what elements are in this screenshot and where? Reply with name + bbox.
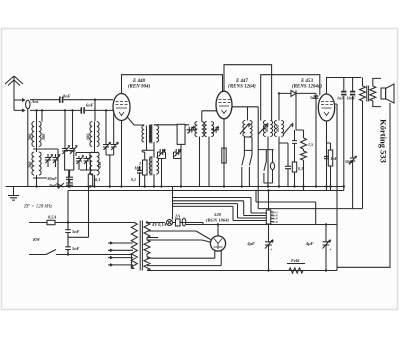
svg-text:Ant: Ant — [31, 99, 39, 104]
svg-text:8nF: 8nF — [63, 94, 71, 99]
output transformer primary zigzag — [360, 78, 366, 209]
diode load column — [292, 93, 304, 186]
interconnect rows — [33, 149, 98, 187]
mains line bottom with switch — [29, 250, 111, 255]
box2 plate loop E453 — [261, 75, 320, 121]
coil 600c with arrow — [240, 107, 252, 137]
grid coil B — [204, 122, 213, 187]
wire IF secondary to shield box — [154, 124, 177, 126]
V2 anode wire — [232, 107, 258, 146]
V3 side wire to x337 — [334, 104, 337, 225]
output transformer core — [367, 86, 369, 102]
cap on x316 — [314, 96, 319, 98]
svg-text:5nF: 5nF — [72, 229, 80, 234]
fuse — [47, 220, 55, 224]
wire drops from W2 to coil row — [37, 110, 114, 145]
svg-text:1nF: 1nF — [337, 96, 344, 101]
bus 2 — [68, 190, 344, 192]
cap midpoint to bus — [68, 187, 89, 238]
padder trimmer pair — [158, 149, 166, 157]
svg-text:5nF: 5nF — [72, 246, 80, 251]
Feld resistor — [287, 264, 305, 274]
V3 cathode down — [326, 121, 328, 191]
svg-text:50pF: 50pF — [345, 159, 354, 164]
V3 top line to output — [327, 78, 362, 95]
svg-text:0,3: 0,3 — [298, 166, 303, 171]
svg-text:0,1: 0,1 — [95, 177, 101, 182]
series caps — [65, 223, 70, 247]
IF transformer secondary — [149, 125, 158, 151]
secondary windings — [144, 223, 150, 271]
trimmer pair T4 lower — [76, 156, 84, 170]
600 coil labels — [264, 124, 280, 131]
wire W2 — [30, 109, 113, 111]
caps 30nF 8nF — [66, 170, 73, 183]
svg-text:E 447: E 447 — [235, 79, 249, 84]
svg-text:0,5A: 0,5A — [48, 215, 56, 220]
V2 cathode down — [223, 119, 225, 187]
svg-text:E 453: E 453 — [300, 79, 314, 84]
speaker tap box — [266, 210, 271, 224]
bus2 drop to mains — [67, 191, 69, 223]
tube V1 bottom wires — [122, 117, 145, 187]
svg-text:600: 600 — [264, 124, 269, 131]
coil 600a — [259, 121, 273, 187]
mains line top — [29, 222, 132, 224]
tube labels — [128, 79, 323, 90]
wire drop x95 — [94, 100, 96, 121]
trimmer pair T3 lower — [45, 154, 53, 167]
coil L2 300 — [90, 122, 99, 147]
svg-text:2A: 2A — [174, 214, 180, 219]
ground — [8, 187, 19, 201]
IF node wires — [142, 149, 154, 151]
tube V2 E447 — [216, 91, 232, 119]
svg-text:4μF: 4μF — [246, 241, 255, 246]
trimmer pair T2 — [103, 142, 111, 155]
svg-text:8nF: 8nF — [49, 183, 57, 188]
wire to V2 grid — [202, 111, 217, 122]
svg-text:0,1: 0,1 — [131, 177, 136, 182]
switch-jack fork — [264, 150, 273, 187]
svg-text:1,5: 1,5 — [308, 142, 313, 147]
heater wires to rectifier — [147, 251, 221, 266]
connector ground drop — [27, 109, 29, 187]
wire top W1 — [30, 99, 113, 101]
svg-text:10nF: 10nF — [347, 96, 356, 101]
right vertical to bottom — [336, 225, 338, 271]
svg-text:030: 030 — [97, 161, 102, 168]
svg-text:300: 300 — [86, 133, 91, 141]
svg-text:300: 300 — [41, 133, 46, 141]
antenna input arrows — [14, 99, 25, 112]
right output column wires — [344, 78, 353, 209]
primary taps — [108, 242, 133, 266]
svg-text:520: 520 — [214, 212, 222, 217]
box1 plate loop E448 — [122, 75, 223, 94]
tube V3 E453 — [318, 94, 334, 121]
capacitor C1 8nF — [60, 97, 63, 103]
svg-text:4V 0,1A: 4V 0,1A — [151, 222, 167, 227]
svg-text:E 448: E 448 — [132, 79, 146, 84]
svg-text:300: 300 — [28, 133, 33, 141]
svg-text:(REN 904): (REN 904) — [128, 85, 151, 90]
resistor right box — [328, 150, 332, 166]
svg-text:ZF = 128 kHz: ZF = 128 kHz — [24, 205, 52, 210]
svg-text:4μF: 4μF — [305, 241, 314, 246]
svg-text:Feld: Feld — [291, 258, 300, 263]
electrolytic cap 4uF right — [323, 225, 331, 271]
coil L4 — [90, 147, 99, 187]
heater wires — [173, 198, 252, 207]
left block labels — [28, 94, 103, 189]
output transformer secondary — [370, 86, 376, 101]
svg-text:600: 600 — [275, 124, 280, 131]
speaker return wire — [337, 103, 390, 267]
IF2 coil — [149, 150, 158, 186]
svg-text:MΩ: MΩ — [133, 166, 141, 171]
speaker — [381, 88, 386, 99]
coil L3 — [32, 147, 41, 187]
resistor box mid — [292, 162, 296, 172]
rectifier RGN — [210, 236, 225, 251]
resistor R 0,1M — [88, 174, 92, 186]
svg-text:(RENS 1204d): (RENS 1204d) — [292, 85, 322, 90]
pickup jack — [182, 218, 186, 226]
cap on V3 cathode — [324, 157, 329, 159]
heater/HV wires — [147, 223, 337, 271]
cap column x288 — [279, 143, 291, 187]
resistor on V2 line — [222, 148, 226, 163]
bottom labels — [32, 214, 332, 264]
svg-text:300: 300 — [28, 161, 33, 169]
capacitor C2 6nF — [81, 107, 84, 113]
switch fork left pair — [242, 137, 252, 187]
transformer core — [140, 221, 142, 271]
antenna — [5, 76, 23, 111]
right loop wire — [256, 191, 316, 225]
trimmer 50pF — [349, 156, 357, 166]
V2 plate loop to 600 coil — [224, 65, 272, 121]
grid coil A — [194, 122, 204, 187]
svg-text:KW: KW — [32, 237, 41, 242]
transformer primary — [111, 223, 137, 269]
svg-text:30nF: 30nF — [46, 176, 57, 181]
electrolytic cap 4uF left — [265, 225, 273, 271]
resistor 2M box — [143, 160, 148, 175]
wire x258 — [258, 146, 362, 209]
wave switch contacts — [52, 183, 64, 189]
cap 0,1 — [137, 166, 142, 187]
line A — [186, 224, 337, 226]
IF transformer primary — [142, 126, 151, 151]
svg-text:5nF: 5nF — [310, 95, 317, 100]
cap 1nF — [341, 92, 346, 95]
svg-text:Körting 533: Körting 533 — [379, 119, 389, 163]
dial lamp — [167, 220, 173, 226]
rectifier output — [217, 225, 219, 236]
svg-text:6nF: 6nF — [86, 103, 94, 108]
antenna connector — [26, 100, 30, 109]
zigzag resistor mid — [301, 130, 307, 191]
trimmer pair T1 — [62, 145, 70, 154]
fuse box 2 — [176, 219, 181, 226]
tap feed staircase — [233, 198, 266, 221]
tube V1 E448 — [113, 94, 130, 121]
svg-text:2x40: 2x40 — [273, 221, 279, 224]
ground bus — [6, 186, 344, 188]
label box 520 connects — [147, 237, 158, 239]
coil L1 300 — [32, 122, 41, 147]
grid trimmer 2 — [211, 126, 219, 134]
svg-text:1nF: 1nF — [331, 156, 338, 161]
shield box — [177, 124, 185, 144]
heater line from bus — [172, 187, 174, 220]
IF transformer core — [150, 124, 152, 176]
gang frame — [65, 151, 74, 171]
cap 10nF — [350, 92, 355, 95]
svg-text:(RGN 1064): (RGN 1064) — [206, 218, 230, 223]
coil 600b — [274, 116, 293, 187]
grid trimmer 1 — [187, 126, 195, 134]
speaker connection loop — [373, 78, 381, 106]
svg-text:(RENS 1264): (RENS 1264) — [228, 85, 256, 90]
diode detector — [279, 90, 316, 186]
